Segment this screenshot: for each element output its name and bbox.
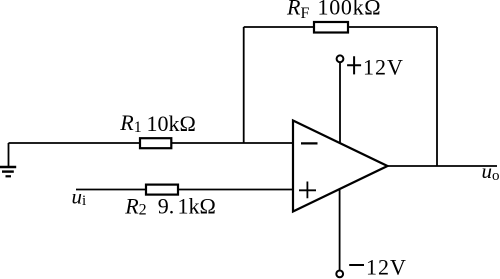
wire inverting input (ground to op-amp minus) [9,142,294,144]
wire feedback top horizontal [244,26,437,28]
wire ground drop [8,143,10,166]
wire feedback left vertical [243,27,245,143]
wire +12V supply [339,62,341,144]
svg-text:R29.1kΩ: R29.1kΩ [124,193,216,218]
terminal -12V circle [336,271,343,278]
terminal +12V circle [337,55,344,62]
op-amp U1 [293,121,388,212]
ground [0,167,16,176]
op-amp plus sign [299,182,316,199]
label -12V minus sign [349,264,364,266]
svg-text:RF100kΩ: RF100kΩ [286,0,381,22]
resistor R1 [140,138,171,148]
wire non-inverting input [76,189,293,191]
resistor RF [314,22,348,33]
wire output [388,165,498,167]
label +12V plus sign [347,56,361,74]
op-amp minus sign [301,142,318,144]
wire -12V supply [339,188,341,271]
svg-text:R110kΩ: R110kΩ [119,110,196,136]
wire feedback right vertical [436,27,438,166]
resistor R2 [146,185,178,195]
svg-text:12V: 12V [366,255,407,279]
svg-text:12V: 12V [363,55,404,80]
